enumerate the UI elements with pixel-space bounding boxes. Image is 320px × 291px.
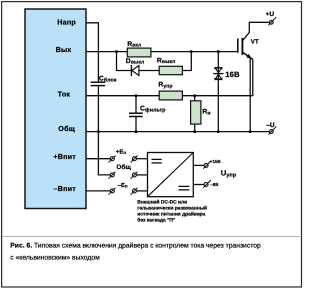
svg-text:16В: 16В xyxy=(225,70,240,79)
svg-text:Rи: Rи xyxy=(202,109,210,117)
svg-text:–U: –U xyxy=(266,122,275,129)
svg-text:Rупр: Rупр xyxy=(158,82,172,90)
svg-text:Dвыкл: Dвыкл xyxy=(126,58,145,66)
svg-text:Общ: Общ xyxy=(116,164,131,171)
svg-text:–Eп: –Eп xyxy=(118,182,128,189)
svg-text:–8В: –8В xyxy=(210,182,218,187)
svg-text:гальванически развязанный: гальванически развязанный xyxy=(137,206,207,212)
svg-text:+U: +U xyxy=(266,11,275,18)
svg-text:с «кельвиновским» выходом: с «кельвиновским» выходом xyxy=(10,254,100,261)
svg-text:Вых: Вых xyxy=(56,45,72,54)
svg-text:Rвкл: Rвкл xyxy=(127,41,141,49)
svg-text:Рис. 6. Типовая схема включени: Рис. 6. Типовая схема включения драйвера… xyxy=(10,241,261,249)
svg-text:VT: VT xyxy=(251,38,259,45)
svg-text:без каскада "П": без каскада "П" xyxy=(137,217,175,223)
svg-text:источник питания драйвера: источник питания драйвера xyxy=(137,211,205,217)
svg-text:+Впит: +Впит xyxy=(53,152,76,161)
svg-text:Внешний DC-DC или: Внешний DC-DC или xyxy=(137,200,187,206)
svg-text:Сблок: Сблок xyxy=(99,76,117,84)
svg-text:Rвыкл: Rвыкл xyxy=(157,57,176,65)
svg-text:Сфильтр: Сфильтр xyxy=(140,106,166,114)
svg-text:+Eп: +Eп xyxy=(116,149,127,156)
svg-text:–Впит: –Впит xyxy=(54,184,77,193)
svg-text:Ток: Ток xyxy=(58,89,71,98)
svg-text:Напр: Напр xyxy=(57,18,76,27)
svg-text:+15В: +15В xyxy=(210,159,221,164)
svg-text:Общ: Общ xyxy=(58,124,75,133)
